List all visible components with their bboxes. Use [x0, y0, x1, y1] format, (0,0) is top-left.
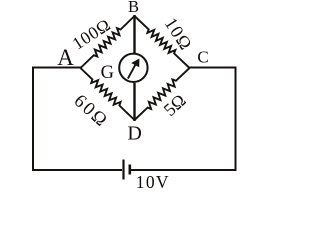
battery: long plate (positive) [122, 160, 124, 180]
svg-text:D: D [127, 122, 141, 144]
wire: bottom left (to battery) [32, 169, 122, 171]
galvanometer G: circle [119, 54, 147, 82]
svg-text:G: G [101, 63, 114, 83]
wire: top-right horizontal (C to right corner) [188, 67, 237, 69]
wire: right vertical [235, 67, 237, 172]
resistor R4 5Ω (D to C) [135, 68, 190, 120]
wire: bottom right (battery to right corner) [131, 169, 237, 171]
wire: galvanometer down to D [133, 83, 135, 121]
battery: short plate (negative) [129, 165, 132, 175]
wire: left vertical [32, 67, 34, 172]
resistor R3 60Ω (A to D) [81, 68, 135, 120]
svg-text:B: B [128, 0, 139, 16]
svg-text:100Ω: 100Ω [69, 14, 115, 53]
svg-text:10V: 10V [136, 172, 170, 192]
resistor R1 100Ω (A to B) [81, 16, 135, 68]
wire: B down to galvanometer [133, 15, 135, 53]
svg-text:A: A [57, 45, 74, 70]
resistor R2 10Ω (B to C) [135, 16, 190, 68]
galvanometer G: needle arrow [128, 59, 139, 79]
svg-text:60Ω: 60Ω [70, 91, 112, 132]
svg-text:C: C [197, 48, 208, 67]
wire: top-left horizontal (A to left corner) [33, 67, 82, 69]
